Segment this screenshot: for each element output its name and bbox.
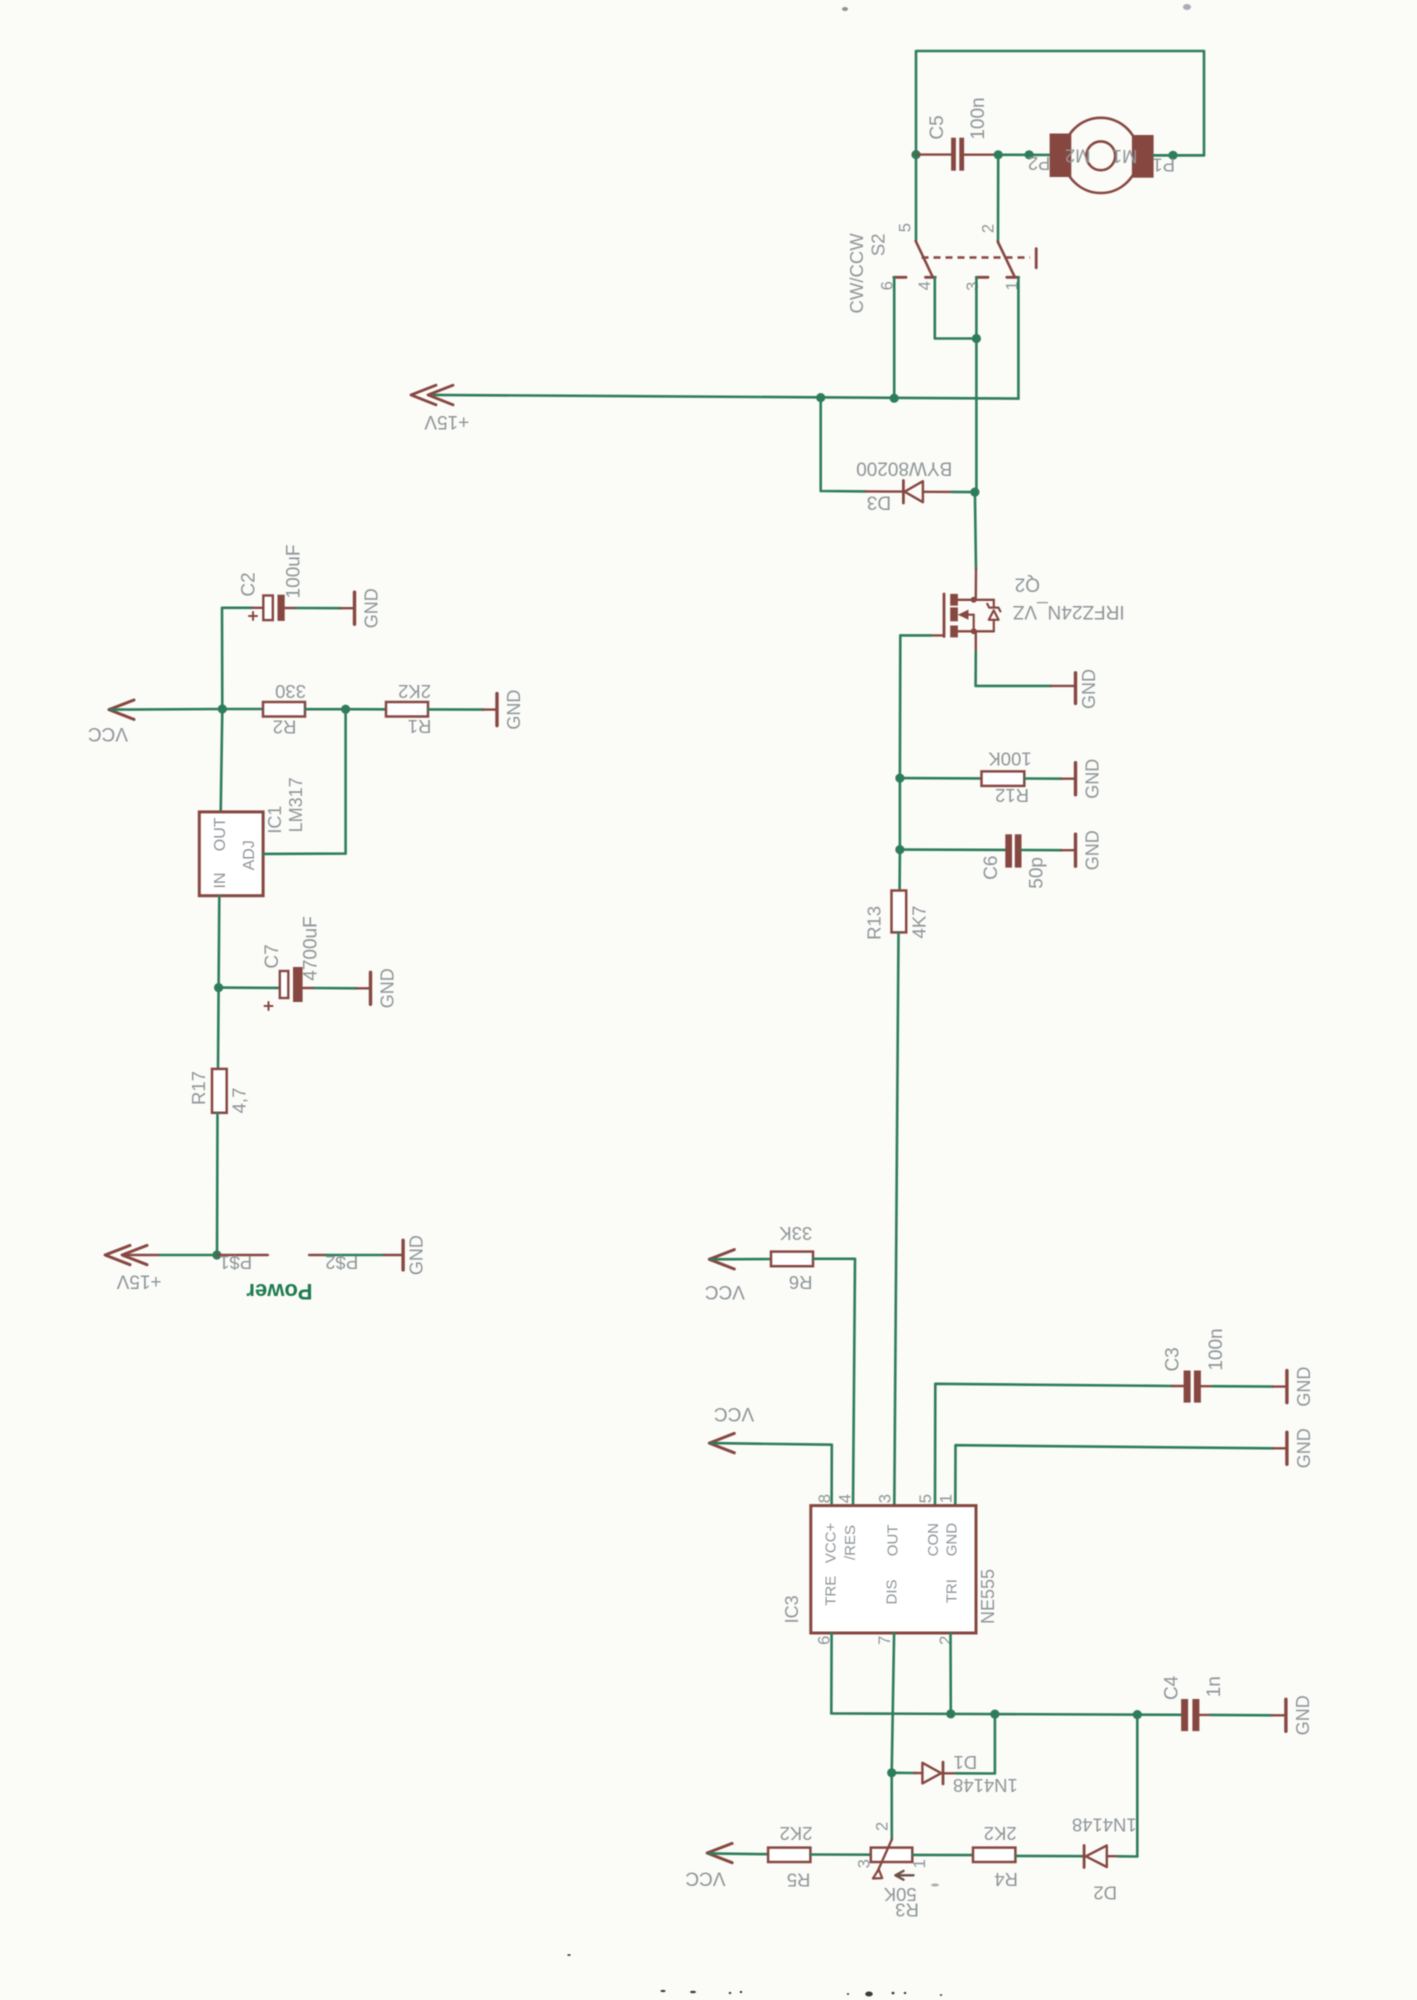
wire R12 left (900, 777, 982, 780)
svg-text:C4: C4 (1162, 1675, 1183, 1700)
svg-text:LM317: LM317 (286, 777, 306, 832)
svg-text:2K2: 2K2 (398, 681, 431, 702)
capacitor C2 polarized (252, 607, 263, 609)
svg-text:+15V: +15V (424, 411, 469, 432)
ground GND at R1 (483, 708, 497, 710)
junction dot pin4-pin3 (972, 334, 981, 343)
svg-text:+15V: +15V (116, 1271, 161, 1292)
svg-text:100n: 100n (968, 97, 989, 139)
svg-text:D2: D2 (1093, 1882, 1117, 1903)
svg-text:VCC: VCC (705, 1281, 745, 1302)
svg-text:2: 2 (937, 1636, 955, 1645)
svg-text:TRI: TRI (944, 1579, 961, 1603)
ground GND at C6 (1062, 849, 1076, 851)
ground GND at R12 (1062, 778, 1076, 780)
svg-text:1n: 1n (1204, 1676, 1225, 1697)
svg-text:GND: GND (406, 1235, 426, 1275)
diode D2 1N4148 (1083, 1846, 1086, 1868)
diode D1 1N4148 (892, 1772, 915, 1775)
wire D2 up to rail (1118, 1715, 1137, 1857)
supply arrow +15V (411, 385, 436, 405)
svg-text:7: 7 (876, 1636, 894, 1645)
wire Q2 drain (975, 492, 976, 569)
junction dot pin2 rail (946, 1709, 955, 1718)
wire Q2 gate (931, 634, 944, 636)
svg-text:BYW80200: BYW80200 (856, 458, 952, 479)
wire IC3 pin5 to C3 (935, 1384, 1172, 1506)
capacitor C3 (1172, 1385, 1184, 1387)
wire motor right to corner (1154, 154, 1204, 157)
ground GND at C3 (1273, 1385, 1287, 1387)
wire VCC trunk top corner (221, 608, 252, 812)
svg-text:5: 5 (897, 223, 915, 232)
svg-text:P$2: P$2 (325, 1252, 358, 1273)
svg-text:R3: R3 (895, 1899, 919, 1920)
junction dot R2-R1-ADJ (341, 705, 350, 714)
wire motor loop top (916, 51, 1204, 241)
svg-text:P$1: P$1 (219, 1252, 252, 1273)
resistor R17 (212, 1069, 227, 1113)
svg-text:100n: 100n (1206, 1328, 1227, 1370)
svg-text:2K2: 2K2 (780, 1823, 813, 1844)
junction dot D1 rail (990, 1710, 999, 1719)
wire IC3 pin2 drop (949, 1633, 952, 1714)
svg-text:C6: C6 (981, 856, 1002, 880)
wire node to R1 (346, 708, 386, 711)
junction dot C5 right node (994, 150, 1003, 159)
svg-text:GND: GND (1082, 759, 1102, 799)
svg-text:D1: D1 (953, 1752, 977, 1773)
regulator IC1 LM317 (199, 812, 263, 896)
svg-text:50p: 50p (1027, 857, 1048, 889)
scan specks (661, 1990, 666, 1992)
svg-text:Q2: Q2 (1015, 574, 1040, 595)
svg-text:1: 1 (938, 1494, 956, 1503)
wire R4 to D2 (1015, 1855, 1084, 1858)
svg-text:VCC: VCC (714, 1403, 754, 1424)
ground GND at Q2 source (1051, 685, 1076, 687)
motor M1/M2 body (1063, 118, 1138, 193)
wire R12 right to GND (1024, 777, 1061, 780)
wire VCC rail power (111, 708, 222, 711)
wire wiper drop (890, 1773, 893, 1840)
svg-text:C7: C7 (262, 944, 283, 968)
wire C6 right to GND (1022, 849, 1062, 852)
wire R17 to P$1 (216, 1113, 219, 1255)
svg-text:TRE: TRE (823, 1576, 840, 1606)
wire IC3 pin7 DIS down (892, 1633, 894, 1773)
svg-text:2: 2 (874, 1822, 892, 1831)
svg-text:GND: GND (944, 1523, 961, 1557)
svg-text:2: 2 (979, 224, 997, 233)
svg-text:R4: R4 (994, 1869, 1018, 1890)
wire VCC to R5 (709, 1852, 768, 1855)
resistor R13 (892, 891, 907, 933)
supply arrow +15V power (105, 1245, 130, 1264)
switch S2 lever 2-1 (998, 242, 1015, 277)
svg-text:OUT: OUT (884, 1525, 901, 1557)
svg-text:CW/CCW: CW/CCW (846, 233, 867, 314)
ground GND at C4 (1272, 1714, 1286, 1716)
wire R13 to IC3 pin3 (894, 932, 898, 1505)
svg-text:DIS: DIS (884, 1579, 901, 1604)
svg-text:R6: R6 (789, 1272, 813, 1293)
wire C3 to GND (1213, 1385, 1273, 1388)
svg-text:VCC: VCC (685, 1868, 725, 1889)
svg-text:1N4148: 1N4148 (1072, 1815, 1137, 1836)
svg-text:IC3: IC3 (782, 1595, 802, 1623)
ground GND at P$2 (384, 1254, 403, 1256)
svg-text:D3: D3 (867, 491, 891, 512)
svg-text:GND: GND (1082, 830, 1102, 870)
wire switch pin3 down to D3 node (975, 277, 978, 492)
transistor Q2 IRFZ24N (943, 594, 946, 637)
wire R6 to IC3 pin4 (813, 1259, 855, 1506)
svg-text:C2: C2 (239, 572, 260, 596)
wire VCC to R6 (712, 1258, 772, 1261)
ground GND at C2 (341, 607, 355, 609)
svg-text:/RES: /RES (842, 1525, 859, 1560)
svg-text:33K: 33K (779, 1223, 813, 1244)
svg-text:R17: R17 (188, 1071, 209, 1105)
svg-text:GND: GND (1294, 1367, 1314, 1407)
svg-text:GND: GND (1079, 669, 1099, 709)
wire ADJ to node (263, 709, 346, 854)
wire +15V rail (431, 395, 1018, 399)
supply arrow VCC pin8 (709, 1433, 734, 1452)
junction dot C7 (214, 983, 223, 992)
svg-text:ADJ: ADJ (241, 840, 258, 870)
switch S2 lever 5-4 (916, 241, 933, 277)
junction dot D3 anode (970, 488, 979, 497)
wire Q2 source to GND (975, 631, 977, 652)
svg-text:GND: GND (1293, 1695, 1313, 1735)
resistor R4 (973, 1848, 1015, 1862)
wire switch pin1 to rail corner (1017, 277, 1020, 398)
resistor R1 (386, 702, 428, 717)
potentiometer R3 adjust marker (899, 1874, 914, 1876)
wire switch pin2 drop (997, 155, 1000, 242)
supply arrow VCC R6 (709, 1250, 734, 1269)
svg-text:GND: GND (504, 690, 524, 730)
switch contact 1 (1007, 276, 1019, 279)
wire switch pin4 to pin3 node (935, 277, 977, 338)
potentiometer R3 body (871, 1848, 913, 1862)
resistor R6 (771, 1252, 813, 1267)
capacitor C7 polarized (219, 986, 280, 989)
svg-text:NE555: NE555 (978, 1569, 998, 1624)
wire R5 to R3 (810, 1853, 870, 1856)
svg-text:100K: 100K (988, 748, 1032, 769)
junction dot pin6 rail (890, 394, 899, 403)
wire C7 to GND (314, 987, 357, 990)
capacitor C5 (951, 138, 956, 171)
wire C5 left stub (916, 153, 951, 155)
resistor R5 (768, 1848, 810, 1862)
svg-text:C5: C5 (927, 115, 948, 139)
wire R1 to GND (428, 708, 483, 711)
IC IC3 NE555 (811, 1506, 976, 1633)
svg-text:CON: CON (925, 1523, 942, 1556)
resistor R12 (982, 771, 1025, 786)
junction dot C5 left node (911, 150, 920, 159)
svg-text:M1: M1 (1112, 146, 1138, 167)
svg-text:4K7: 4K7 (909, 906, 930, 939)
svg-text:4: 4 (916, 281, 934, 290)
junction dot VCC rail (218, 704, 227, 713)
switch contact 3 (976, 276, 988, 279)
junction dot gate-R12 (895, 774, 904, 783)
wire IN trunk down (218, 896, 219, 1069)
svg-text:GND: GND (377, 968, 397, 1008)
wire C2 to GND (296, 607, 341, 610)
capacitor C4 (1181, 1699, 1188, 1731)
wire R3 to R4 (912, 1854, 973, 1857)
svg-text:R5: R5 (787, 1869, 811, 1890)
svg-text:IC1: IC1 (265, 806, 285, 834)
potentiometer R3 wiper arrow (878, 1840, 892, 1872)
svg-text:4700uF: 4700uF (301, 916, 322, 980)
junction dot DIS-D1-wiper (887, 1768, 896, 1777)
supply arrow VCC power (109, 700, 134, 719)
svg-text:M2: M2 (1065, 145, 1091, 166)
wire node to motor P2 (998, 154, 1049, 157)
wire VCC dot to R2 (222, 708, 263, 711)
svg-text:3: 3 (855, 1859, 873, 1868)
capacitor C6 (1005, 834, 1012, 867)
svg-text:GND: GND (1294, 1428, 1314, 1468)
wire IC3 pin1 to GND (955, 1445, 1273, 1505)
wire VCC to IC3 pin8 (712, 1443, 832, 1506)
svg-text:R13: R13 (863, 906, 884, 940)
wire D3 cathode branch (821, 398, 866, 492)
junction dot D2 rail (1133, 1710, 1142, 1719)
svg-text:R12: R12 (995, 785, 1029, 806)
svg-text:S2: S2 (868, 233, 889, 256)
ground GND at pin1 (1273, 1447, 1287, 1449)
wire C6 left (900, 848, 1005, 851)
svg-text:R2: R2 (273, 716, 297, 737)
wire gate chain vertical (898, 635, 901, 890)
svg-text:R1: R1 (408, 716, 432, 737)
svg-text:OUT: OUT (212, 817, 229, 851)
resistor R2 (263, 702, 305, 717)
pad P$1 stub (217, 1254, 268, 1256)
switch S2 dashed link (922, 256, 1031, 258)
svg-text:IRFZ24N_VZ: IRFZ24N_VZ (1012, 601, 1124, 622)
junction dot motor P2 pin (1025, 150, 1034, 159)
junction dot rail-D3 (816, 393, 825, 402)
svg-text:C3: C3 (1162, 1347, 1183, 1371)
svg-text:2K2: 2K2 (984, 1823, 1017, 1844)
svg-text:4: 4 (837, 1494, 855, 1503)
svg-text:330: 330 (275, 681, 306, 702)
supply arrow VCC bottom (707, 1843, 732, 1862)
wire IC3 pin6 to TRE/TRI rail (831, 1633, 1181, 1715)
svg-text:8: 8 (816, 1494, 834, 1503)
switch contact 4 (926, 276, 936, 279)
junction dot P$1 (212, 1250, 221, 1259)
junction dot motor P1 pin (1168, 151, 1177, 160)
svg-text:IN: IN (212, 873, 229, 889)
wire C4 to GND (1211, 1714, 1272, 1717)
svg-text:4,7: 4,7 (228, 1088, 249, 1114)
svg-text:5: 5 (917, 1494, 935, 1503)
svg-text:100uF: 100uF (284, 545, 305, 599)
svg-text:1: 1 (911, 1859, 929, 1868)
wire D1 to rail (956, 1714, 995, 1773)
svg-text:3: 3 (964, 282, 982, 291)
svg-text:1N4148: 1N4148 (953, 1775, 1018, 1796)
pad P$2 stub (309, 1254, 326, 1256)
junction dot gate-C6 (895, 845, 904, 854)
wire switch pin6 to +15V rail (893, 277, 896, 398)
wire R2 to node (305, 708, 346, 711)
svg-text:GND: GND (361, 588, 381, 628)
ground GND at C7 (357, 987, 371, 989)
wire +15V to P$1 (124, 1254, 160, 1256)
switch contact 6 (894, 276, 906, 279)
svg-text:Power: Power (246, 1279, 312, 1304)
svg-text:VCC+: VCC+ (823, 1522, 840, 1563)
svg-text:P2: P2 (1028, 153, 1051, 174)
svg-text:VCC: VCC (88, 723, 128, 744)
diode D3 BYW80200 (866, 490, 903, 493)
svg-text:P1: P1 (1152, 154, 1175, 175)
svg-text:3: 3 (877, 1494, 895, 1503)
